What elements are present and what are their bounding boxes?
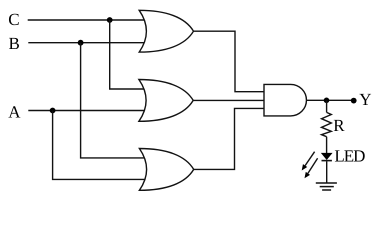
node Y terminal — [351, 98, 357, 104]
wire B branch to OR3 — [81, 43, 147, 158]
svg-text:LED: LED — [334, 147, 365, 166]
wire LED to ground — [326, 161, 328, 183]
wire OR2 output to AND — [193, 99, 265, 101]
and-gate U4 — [264, 84, 306, 116]
wire A input — [28, 110, 146, 112]
LED D1 triangle — [322, 153, 332, 159]
node output junction — [324, 98, 330, 104]
svg-text:C: C — [8, 10, 19, 29]
or-gate U1 — [139, 10, 193, 52]
node B junction — [78, 40, 84, 46]
LED emission arrow 1 — [305, 152, 315, 166]
node A junction — [50, 108, 56, 114]
wire OR3 output to AND — [194, 108, 266, 169]
svg-text:Y: Y — [359, 90, 371, 109]
svg-text:A: A — [8, 103, 21, 122]
wire resistor to LED — [326, 137, 328, 154]
LED emission arrow 2 — [308, 158, 318, 173]
wire AND output to Y — [307, 99, 354, 101]
wire OR1 output to AND — [194, 31, 266, 91]
or-gate U2 — [139, 80, 193, 122]
node C junction — [107, 17, 113, 23]
or-gate U3 — [139, 149, 193, 191]
wire B input — [28, 42, 146, 44]
wire junction to resistor — [326, 100, 328, 112]
resistor R — [322, 112, 332, 136]
svg-text:R: R — [333, 116, 345, 135]
wire A branch to OR3 — [53, 111, 147, 180]
svg-text:B: B — [9, 34, 20, 53]
ground — [316, 183, 337, 190]
wire C input — [28, 19, 146, 21]
LED D1 cathode bar — [322, 160, 332, 162]
wire C branch to OR2 — [110, 20, 146, 89]
